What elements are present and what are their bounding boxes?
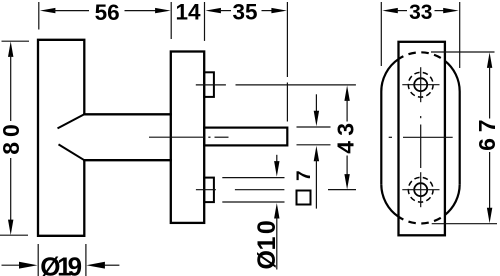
neck chamfer top bbox=[58, 114, 85, 128]
svg-text:0: 0 bbox=[253, 220, 281, 234]
dim 56 bbox=[38, 2, 40, 30]
screw hole top bbox=[414, 78, 427, 91]
rose side view bbox=[171, 52, 204, 223]
vertical centerline bbox=[420, 116, 422, 118]
dim diameter 10 bbox=[276, 155, 278, 164]
dim 43 bbox=[236, 84, 356, 86]
svg-text:1: 1 bbox=[253, 236, 281, 250]
svg-text:4: 4 bbox=[333, 141, 359, 154]
rose stadium hidden arcs (dashed) bbox=[399, 52, 445, 60]
dim 33 bbox=[380, 2, 382, 66]
svg-text:14: 14 bbox=[175, 0, 201, 24]
screw boss top bbox=[204, 72, 214, 97]
svg-text:7: 7 bbox=[474, 119, 500, 132]
svg-text:8: 8 bbox=[0, 142, 24, 155]
dim 35 bbox=[205, 8, 221, 13]
bottom boss axis bbox=[196, 189, 216, 191]
grip (lever bar side view) bbox=[38, 40, 84, 236]
neck bottom edge bbox=[83, 159, 172, 161]
rose stadium solid corner arcs bbox=[381, 59, 398, 92]
screw hole bottom bbox=[414, 183, 427, 196]
dim 14 bbox=[170, 2, 172, 39]
spindle (side view) bbox=[204, 128, 287, 146]
neck top edge bbox=[83, 113, 172, 115]
svg-text:9: 9 bbox=[68, 251, 82, 276]
dim 80 bbox=[2, 40, 30, 42]
svg-text:0: 0 bbox=[0, 124, 24, 137]
boss edge extension lines bbox=[222, 177, 284, 179]
svg-text:Ø: Ø bbox=[253, 250, 281, 269]
svg-text:56: 56 bbox=[95, 0, 120, 25]
svg-text:6: 6 bbox=[474, 138, 500, 151]
rose stadium solid sides bbox=[380, 92, 382, 185]
top boss axis bbox=[196, 84, 226, 86]
svg-text:35: 35 bbox=[232, 0, 257, 24]
handle axis centerline bbox=[149, 136, 205, 138]
grip front view bbox=[399, 42, 445, 236]
screw boss bottom bbox=[204, 178, 214, 203]
horizontal centerline bbox=[389, 136, 392, 138]
square symbol bbox=[297, 191, 311, 205]
spindle end extension line bbox=[286, 2, 288, 77]
dim diameter 19 bbox=[37, 244, 39, 276]
svg-text:33: 33 bbox=[409, 1, 432, 24]
svg-text:7: 7 bbox=[294, 170, 315, 181]
dim 7 (square spindle) bbox=[297, 126, 331, 128]
neck chamfer bottom bbox=[59, 144, 85, 160]
dim 67 bbox=[431, 51, 495, 53]
svg-text:3: 3 bbox=[333, 123, 359, 136]
